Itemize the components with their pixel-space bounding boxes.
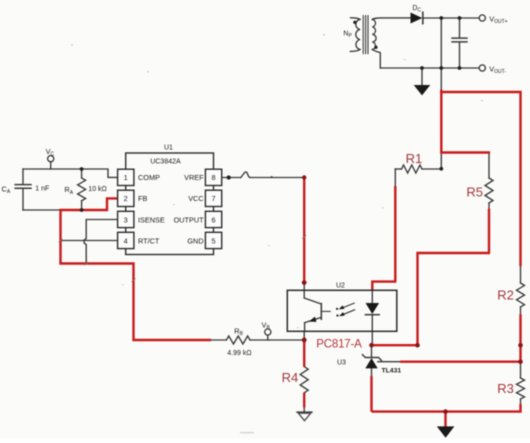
svg-text:R4: R4	[282, 370, 299, 385]
svg-text:OUTPUT: OUTPUT	[174, 215, 205, 224]
svg-text:VCC: VCC	[188, 194, 203, 203]
svg-text:R1: R1	[406, 151, 423, 166]
svg-text:RT/CT: RT/CT	[138, 236, 160, 245]
svg-text:FB: FB	[138, 194, 147, 203]
svg-text:U3: U3	[337, 360, 346, 367]
svg-text:6: 6	[211, 215, 215, 224]
svg-text:VREF: VREF	[184, 173, 204, 182]
svg-text:TL431: TL431	[382, 368, 402, 375]
svg-text:3: 3	[124, 215, 128, 224]
svg-text:7: 7	[211, 194, 215, 203]
svg-text:8: 8	[211, 173, 215, 182]
svg-text:10 kΩ: 10 kΩ	[88, 186, 106, 193]
svg-text:R3: R3	[497, 381, 514, 396]
svg-text:ISENSE: ISENSE	[138, 215, 165, 224]
svg-text:4: 4	[124, 236, 128, 245]
svg-text:R5: R5	[466, 184, 483, 199]
svg-text:1: 1	[124, 173, 128, 182]
svg-text:COMP: COMP	[138, 173, 160, 182]
svg-text:PC817-A: PC817-A	[316, 338, 362, 350]
svg-text:2: 2	[124, 194, 128, 203]
svg-text:U1: U1	[164, 145, 173, 152]
svg-text:UC3842A: UC3842A	[150, 159, 181, 166]
svg-text:U2: U2	[336, 283, 345, 290]
svg-text:4.99 kΩ: 4.99 kΩ	[227, 350, 251, 357]
svg-text:5: 5	[211, 236, 215, 245]
svg-text:1 nF: 1 nF	[35, 186, 49, 193]
svg-text:GND: GND	[187, 236, 203, 245]
svg-text:R2: R2	[497, 288, 514, 303]
